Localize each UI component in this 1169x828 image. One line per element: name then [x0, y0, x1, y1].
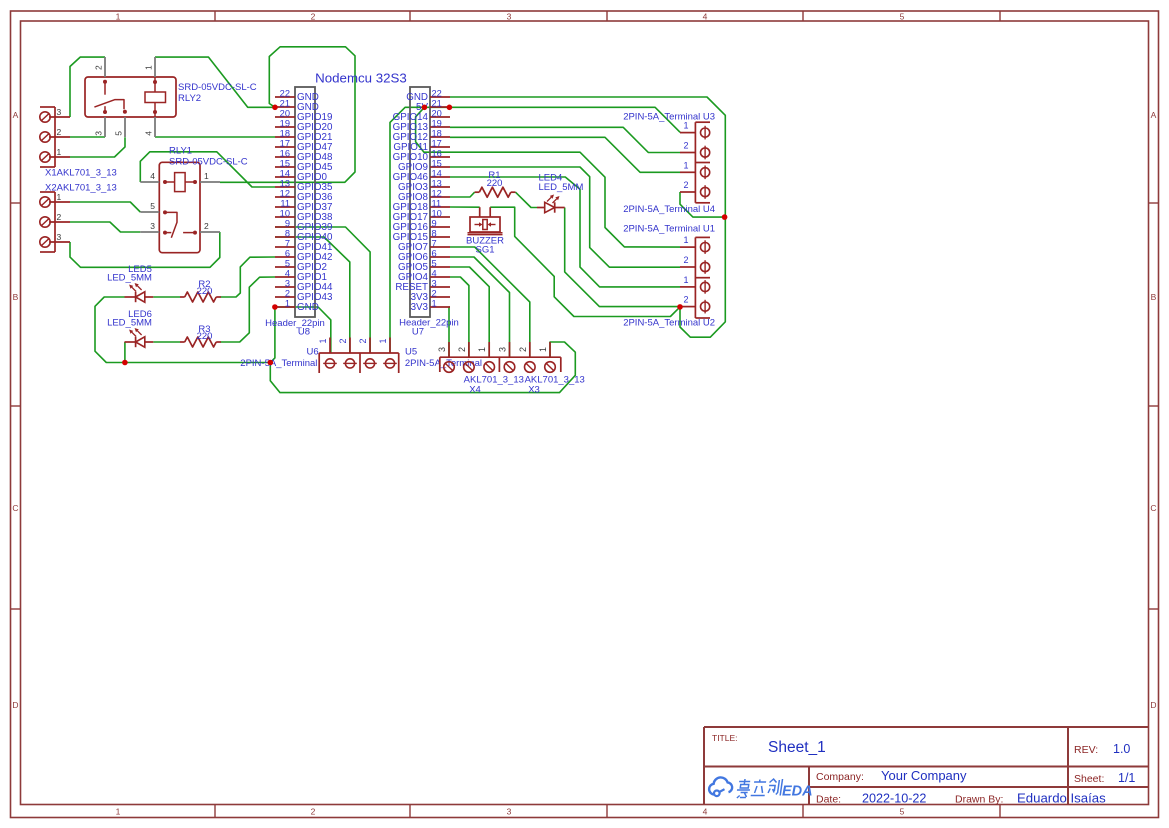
wire X1.2 to RLY2.3 [70, 136, 105, 138]
header U8 pin 2 [275, 296, 295, 298]
wire LED5 cathode to GND rail [95, 297, 125, 363]
terminal X2 pin 2 [40, 217, 70, 227]
relay RLY2 pin 3 [104, 117, 106, 137]
svg-text:15: 15 [280, 158, 290, 168]
relay RLY2 body [85, 77, 176, 117]
svg-text:2: 2 [518, 347, 528, 352]
svg-text:Sheet_1: Sheet_1 [768, 739, 826, 756]
svg-text:2PIN-5A_Terminal: 2PIN-5A_Terminal [240, 358, 317, 369]
relay RLY2 pin 5 [124, 117, 126, 137]
terminal X4 pin 2 [464, 342, 475, 372]
wire GPIO46 to U2.1 [450, 177, 680, 287]
header U8 pin 18 [275, 136, 295, 138]
relay RLY1 pin 3 [140, 231, 159, 233]
terminal X2 pin 3 [40, 237, 70, 247]
svg-text:REV:: REV: [1074, 744, 1098, 756]
svg-text:220: 220 [487, 178, 503, 189]
svg-text:10: 10 [432, 208, 442, 218]
wire RLY1.1 to GND arch [220, 47, 355, 183]
header U7 pin 22 [430, 96, 450, 98]
svg-text:7: 7 [285, 238, 290, 248]
header U8 pin 10 [275, 216, 295, 218]
wire X2.3 to RLY1.2 [70, 232, 220, 267]
svg-text:2PIN-5A_Terminal U1: 2PIN-5A_Terminal U1 [623, 224, 715, 235]
wire GPIO12 to U4.1 [450, 137, 680, 172]
svg-text:18: 18 [432, 128, 442, 138]
svg-text:1.0: 1.0 [1113, 742, 1130, 756]
terminal X1 pin 1 [40, 152, 70, 162]
terminal X1 pin 2 [40, 132, 70, 142]
svg-text:3: 3 [498, 347, 508, 352]
resistor R2 [180, 292, 221, 302]
wire R1 to LED4 [516, 192, 538, 207]
header U8 pin 4 [275, 276, 295, 278]
ruler numbers bottom [116, 807, 905, 817]
header U7 pin 14 [430, 176, 450, 178]
svg-text:D: D [12, 700, 18, 710]
svg-text:Company:: Company: [816, 771, 864, 783]
header U7 pin 17 [430, 146, 450, 148]
svg-text:1: 1 [683, 275, 688, 285]
terminal U3 U4 bracket [695, 122, 710, 203]
ruler ticks top [215, 11, 1000, 21]
header U8 pin 12 [275, 196, 295, 198]
svg-text:3: 3 [507, 12, 512, 22]
svg-text:5: 5 [114, 131, 124, 136]
buzzer SG1 [468, 207, 503, 234]
svg-text:1: 1 [57, 192, 62, 202]
wire RLY2.1 to GND [155, 57, 275, 107]
header U7 pin 9 [430, 226, 450, 228]
svg-text:2: 2 [432, 288, 437, 298]
junction 5V at U7 pin 21 [447, 105, 453, 111]
svg-text:1: 1 [144, 65, 154, 70]
svg-text:8: 8 [432, 228, 437, 238]
wire LED6 to R3 [153, 341, 180, 343]
header U8 pin 19 [275, 126, 295, 128]
svg-text:20: 20 [432, 108, 442, 118]
svg-text:4: 4 [144, 131, 154, 136]
svg-text:C: C [1150, 503, 1156, 513]
wire GPIO5 to X4.1 [450, 267, 489, 357]
header U8 pin 20 [275, 116, 295, 118]
svg-text:Drawn By:: Drawn By: [955, 794, 1003, 806]
header U7 pin 19 [430, 126, 450, 128]
svg-text:4: 4 [285, 268, 290, 278]
junction 5V interior [422, 105, 428, 111]
ruler ticks bottom [215, 805, 1000, 818]
svg-text:1: 1 [683, 160, 688, 170]
header U8 body [295, 87, 315, 317]
wire RLY2.4 to GPIO21 [155, 136, 275, 138]
header U8 pin 13 [275, 186, 295, 188]
wire buzzer to GND [490, 207, 680, 316]
svg-text:2: 2 [311, 12, 316, 22]
header U8 pin 22 [275, 96, 295, 98]
header U8 pin 7 [275, 246, 295, 248]
header U7 pin 7 [430, 246, 450, 248]
header U8 pin 21 [275, 106, 295, 108]
svg-text:3V3: 3V3 [411, 302, 429, 313]
svg-text:8: 8 [285, 228, 290, 238]
header U8 pin 15 [275, 166, 295, 168]
svg-text:19: 19 [280, 118, 290, 128]
LED LED6 [125, 328, 154, 347]
svg-text:GND: GND [297, 302, 319, 313]
svg-text:11: 11 [280, 198, 290, 208]
wire LED4 cathode to GND [565, 208, 680, 307]
junction GND rail at U6 [268, 360, 274, 366]
svg-text:2PIN-5A_Terminal U4: 2PIN-5A_Terminal U4 [623, 204, 715, 215]
terminal U1 U2 bracket [695, 237, 710, 318]
header U8 pin 8 [275, 236, 295, 238]
svg-text:12: 12 [432, 188, 442, 198]
wire 5V U5.1 to U3.1 [390, 107, 680, 353]
svg-text:17: 17 [280, 138, 290, 148]
terminal U2 pin 1 [680, 280, 710, 294]
svg-text:1: 1 [318, 338, 328, 343]
svg-text:3: 3 [57, 107, 62, 117]
svg-text:Nodemcu 32S3: Nodemcu 32S3 [315, 71, 407, 86]
svg-text:19: 19 [432, 118, 442, 128]
svg-text:D: D [1150, 700, 1156, 710]
wire RLY1.4 to GPIO35 [140, 152, 275, 187]
svg-text:3: 3 [507, 807, 512, 817]
svg-text:3: 3 [150, 221, 155, 231]
svg-text:C: C [12, 503, 18, 513]
header U7 pin 1 [430, 306, 450, 308]
svg-text:2PIN-5A_Terminal U2: 2PIN-5A_Terminal U2 [623, 318, 715, 329]
header U8 pin 14 [275, 176, 295, 178]
svg-text:3: 3 [57, 232, 62, 242]
header U8 pin 5 [275, 266, 295, 268]
header U7 pin 3 [430, 286, 450, 288]
svg-text:2: 2 [57, 127, 62, 137]
terminal X4 pin 1 [484, 342, 495, 372]
header U7 body [410, 87, 430, 317]
svg-text:1/1: 1/1 [1118, 771, 1135, 785]
wire X1.1 to RLY2.5 [70, 137, 125, 157]
wire X1.3 to RLY2.2 [70, 57, 105, 117]
wire GPIO18 to buzzer [450, 206, 480, 208]
svg-text:2: 2 [311, 807, 316, 817]
resistor R1 [475, 187, 516, 197]
terminal U3 pin 1 [680, 126, 710, 140]
logo EasyEDA cloud icon [709, 777, 732, 796]
relay RLY1 pin 2 [200, 231, 220, 233]
svg-text:14: 14 [280, 168, 290, 178]
header U7 pin 5 [430, 266, 450, 268]
svg-text:2: 2 [683, 180, 688, 190]
svg-text:1: 1 [477, 347, 487, 352]
svg-text:11: 11 [432, 198, 442, 208]
svg-text:4: 4 [150, 171, 155, 181]
svg-text:A: A [13, 110, 19, 120]
terminal U5 pin 2 [363, 338, 377, 369]
wire GPIO7 to X3.2 [450, 247, 530, 357]
wire U7 GND to right rail [450, 97, 725, 337]
svg-text:1: 1 [538, 347, 548, 352]
svg-text:15: 15 [432, 158, 442, 168]
svg-text:12: 12 [280, 188, 290, 198]
svg-text:SRD-05VDC-SL-C: SRD-05VDC-SL-C [169, 157, 248, 168]
header U8 pin 11 [275, 206, 295, 208]
terminal U6 pin 2 [343, 338, 357, 369]
svg-text:Header_22pin: Header_22pin [399, 318, 459, 329]
wire GND rail [125, 362, 270, 364]
svg-text:RLY2: RLY2 [178, 93, 201, 104]
svg-text:2: 2 [683, 295, 688, 305]
header U7 pin 11 [430, 206, 450, 208]
header U7 pin 16 [430, 156, 450, 158]
header U7 pin 2 [430, 296, 450, 298]
wire GPIO39 to U5.2 [275, 227, 370, 353]
svg-text:2: 2 [358, 338, 368, 343]
header U8 pin 6 [275, 256, 295, 258]
svg-text:X2AKL701_3_13: X2AKL701_3_13 [45, 183, 117, 194]
svg-text:Sheet:: Sheet: [1074, 773, 1104, 785]
svg-text:RLY1: RLY1 [169, 146, 192, 157]
relay RLY2 pin 1 [154, 57, 156, 77]
relay RLY1 pin 1 [200, 181, 220, 183]
svg-text:2: 2 [683, 141, 688, 151]
terminal X3 pin 3 [504, 342, 515, 372]
terminal X4 pin 3 [444, 342, 455, 372]
svg-text:2: 2 [338, 338, 348, 343]
svg-text:2: 2 [285, 288, 290, 298]
header U7 pin 20 [430, 116, 450, 118]
header U8 pin 3 [275, 286, 295, 288]
terminal U6 U5 bracket [319, 353, 399, 373]
wire GND bottom loop to X3.1 [270, 342, 575, 393]
header U7 pin 8 [430, 236, 450, 238]
header U7 pin 4 [430, 276, 450, 278]
relay RLY2 coil [145, 77, 166, 117]
ruler numbers top [116, 12, 905, 22]
terminal U1 pin 1 [680, 240, 710, 254]
terminal X3 pin 2 [525, 342, 536, 372]
svg-text:22: 22 [280, 88, 290, 98]
terminal U1 pin 2 [680, 260, 710, 274]
svg-text:18: 18 [280, 128, 290, 138]
terminal U2 pin 2 [680, 300, 710, 314]
relay RLY1 pin 4 [140, 181, 159, 183]
junction GND at U2 pin 2 [677, 304, 683, 310]
relay RLY2 pin 2 [104, 57, 106, 77]
svg-text:1: 1 [432, 298, 437, 308]
wire GPIO8 to R1 [450, 192, 475, 197]
wire GND rail to U8.1 [270, 307, 275, 363]
svg-text:U8: U8 [298, 327, 310, 338]
svg-text:17: 17 [432, 138, 442, 148]
svg-text:4: 4 [432, 268, 437, 278]
logo EasyEDA hanzi glyphs [736, 779, 783, 798]
svg-text:3: 3 [432, 278, 437, 288]
header U7 pin 13 [430, 186, 450, 188]
junction GND rail at LED6 [122, 360, 128, 366]
svg-text:2: 2 [94, 65, 104, 70]
LED LED5 [125, 283, 154, 302]
svg-text:2022-10-22: 2022-10-22 [862, 792, 926, 806]
svg-text:B: B [1151, 292, 1157, 302]
svg-text:X4: X4 [469, 385, 481, 396]
svg-text:U6: U6 [307, 347, 319, 358]
svg-text:1: 1 [378, 338, 388, 343]
svg-text:7: 7 [432, 238, 437, 248]
ruler letters left [12, 110, 18, 710]
title block border [704, 727, 1149, 805]
relay RLY1 pin 5 [140, 211, 159, 213]
svg-text:X3: X3 [528, 385, 540, 396]
svg-text:5: 5 [900, 807, 905, 817]
wire R3 to GPIO1 [220, 277, 275, 342]
svg-text:1: 1 [116, 12, 121, 22]
svg-text:Eduardo Isaías: Eduardo Isaías [1017, 791, 1106, 806]
svg-text:1: 1 [57, 147, 62, 157]
terminal X1 bracket [40, 107, 55, 167]
svg-text:6: 6 [285, 248, 290, 258]
svg-text:13: 13 [432, 178, 442, 188]
svg-text:TITLE:: TITLE: [712, 733, 738, 743]
wire GPIO40 to U6.2 [275, 237, 350, 353]
ruler letters right [1150, 110, 1156, 710]
terminal X3 pin 1 [545, 342, 556, 372]
svg-text:1: 1 [116, 807, 121, 817]
wire LED5 to R2 [153, 296, 180, 298]
terminal X2 pin 1 [40, 197, 70, 207]
relay RLY1 coil [163, 173, 197, 192]
header U8 pin 1 [275, 306, 295, 308]
svg-text:1: 1 [204, 171, 209, 181]
terminal X4 X3 bracket [440, 357, 561, 372]
wire U4.2 to GND [680, 192, 725, 217]
svg-text:B: B [13, 292, 19, 302]
svg-text:4: 4 [703, 807, 708, 817]
svg-text:10: 10 [280, 208, 290, 218]
svg-text:EDA: EDA [782, 784, 813, 800]
header U7 pin 21 [430, 106, 450, 108]
wire 3V3 to X4.3 [449, 307, 450, 357]
svg-text:3: 3 [285, 278, 290, 288]
svg-text:5: 5 [432, 258, 437, 268]
svg-text:20: 20 [280, 108, 290, 118]
svg-text:X1AKL701_3_13: X1AKL701_3_13 [45, 168, 117, 179]
wire 5V interior to U1.1 [416, 107, 680, 247]
svg-text:4: 4 [703, 12, 708, 22]
junction GND at U8 pin 1 [272, 304, 278, 310]
header U7 pin 12 [430, 196, 450, 198]
svg-text:LED_5MM: LED_5MM [107, 318, 152, 329]
terminal X1 pin 3 [40, 112, 70, 122]
svg-text:5: 5 [900, 12, 905, 22]
resistor R3 [180, 337, 221, 347]
header U8 pin 16 [275, 156, 295, 158]
svg-text:16: 16 [280, 148, 290, 158]
svg-text:1: 1 [683, 235, 688, 245]
junction GND right rail [722, 214, 728, 220]
terminal U6 pin 1 [323, 338, 337, 369]
svg-text:13: 13 [280, 178, 290, 188]
svg-text:2: 2 [57, 212, 62, 222]
svg-text:SRD-05VDC-SL-C: SRD-05VDC-SL-C [178, 82, 257, 93]
svg-text:9: 9 [285, 218, 290, 228]
svg-text:SG1: SG1 [475, 245, 494, 256]
wire GPIO6 to X3.3 [450, 257, 510, 357]
svg-text:1: 1 [285, 298, 290, 308]
LED LED4 [537, 195, 565, 213]
relay RLY2 contacts [94, 80, 127, 114]
header U7 pin 6 [430, 256, 450, 258]
ruler ticks right [1149, 203, 1159, 609]
ruler ticks left [11, 203, 21, 609]
svg-text:21: 21 [432, 98, 442, 108]
header U7 pin 15 [430, 166, 450, 168]
terminal U4 pin 2 [680, 185, 710, 199]
svg-text:220: 220 [197, 331, 213, 342]
svg-text:2: 2 [683, 255, 688, 265]
svg-text:A: A [1151, 110, 1157, 120]
wire GPIO13 to U3.2 [450, 127, 680, 152]
svg-text:Header_22pin: Header_22pin [265, 318, 325, 329]
relay RLY1 contacts [163, 210, 197, 237]
header U7 pin 10 [430, 216, 450, 218]
svg-text:LED_5MM: LED_5MM [107, 273, 152, 284]
junction GND at U8 pin 21 [272, 105, 278, 111]
svg-text:3: 3 [437, 347, 447, 352]
header U8 pin 17 [275, 146, 295, 148]
svg-text:U7: U7 [412, 327, 424, 338]
svg-text:LED_5MM: LED_5MM [539, 182, 584, 193]
svg-text:5: 5 [285, 258, 290, 268]
svg-text:2: 2 [204, 221, 209, 231]
svg-text:2PIN-5A_Terminal U3: 2PIN-5A_Terminal U3 [623, 112, 715, 123]
header U7 pin 18 [430, 136, 450, 138]
wire R2 to GPIO42 [220, 257, 275, 297]
svg-text:U5: U5 [405, 347, 417, 358]
svg-text:16: 16 [432, 148, 442, 158]
terminal U3 pin 2 [680, 146, 710, 160]
relay RLY2 pin 4 [154, 117, 156, 137]
svg-text:22: 22 [432, 88, 442, 98]
wire X2.2 to RLY1.3 [70, 222, 140, 232]
svg-text:Date:: Date: [816, 794, 841, 806]
header U8 pin 9 [275, 226, 295, 228]
relay RLY1 body [159, 162, 200, 252]
svg-text:220: 220 [197, 286, 213, 297]
svg-text:21: 21 [280, 98, 290, 108]
wire LED6 cathode drop [124, 342, 126, 363]
svg-text:Your Company: Your Company [881, 768, 967, 783]
svg-text:2: 2 [457, 347, 467, 352]
svg-text:3: 3 [94, 131, 104, 136]
svg-text:6: 6 [432, 248, 437, 258]
terminal U5 pin 1 [383, 338, 397, 369]
svg-text:5: 5 [150, 201, 155, 211]
terminal U4 pin 1 [680, 166, 710, 180]
svg-text:9: 9 [432, 218, 437, 228]
wire X2.1 to RLY1.5 [70, 202, 140, 212]
wire GPIO9 to U1.2 [450, 167, 680, 267]
terminal X2 bracket [40, 192, 55, 252]
svg-text:14: 14 [432, 168, 442, 178]
wire GPIO4 to X4.2 [450, 277, 469, 357]
wire GND U8.1 to U6.1 [275, 307, 331, 353]
